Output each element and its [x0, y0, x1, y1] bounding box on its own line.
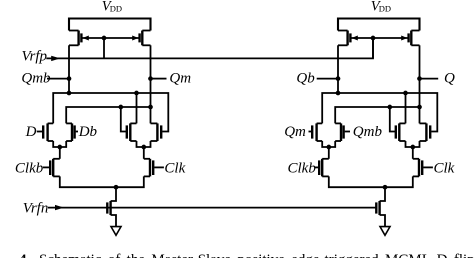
- NMOS input Db drain step (master): [66, 122, 72, 124]
- NMOS clock Clk gate lead (master): [154, 166, 164, 168]
- wire tail NMOS drain rise (master): [111, 187, 116, 201]
- NMOS clock Clkb source step (master): [53, 175, 60, 177]
- ground current-sink arrow (slave): [380, 227, 390, 236]
- NMOS clock Clkb channel (master): [52, 159, 54, 177]
- wire input pair common source (slave): [322, 141, 335, 147]
- node PMOS gate junction (master): [102, 36, 107, 41]
- wire input pair common source (master): [53, 141, 66, 147]
- wire cross-coupled left drain rise (slave): [405, 93, 407, 123]
- wire Vrfp bias drop (master): [103, 38, 105, 58]
- node Qb / line-A junction (slave): [336, 91, 341, 96]
- wire input pair tail drop (slave): [328, 147, 330, 159]
- NMOS clock Clk gate lead (slave): [423, 166, 433, 168]
- node cross-coupled pair tail (master): [141, 145, 146, 150]
- PMOS load left (master) gate bar: [80, 33, 82, 42]
- VDD rail (slave): [338, 19, 420, 31]
- wire Q drain vertical (slave): [419, 45, 421, 123]
- PMOS load right (master) gate bar: [138, 33, 140, 42]
- NMOS cross-coupled right gate bar (slave): [429, 125, 431, 138]
- svg-text:Schematic of the Master-Slave: Schematic of the Master-Slave positive e…: [39, 252, 474, 258]
- wire XC left gate drop (slave): [390, 107, 397, 132]
- NMOS input Qm channel (slave): [315, 123, 317, 141]
- wire XC left gate drop (master): [121, 107, 128, 132]
- NMOS input D gate bar (master): [42, 125, 44, 138]
- NMOS cross-coupled right channel (slave): [425, 123, 427, 141]
- NMOS clock Clk source step (master): [144, 175, 150, 177]
- NMOS clock Clk gate bar (master): [152, 160, 154, 175]
- wire line-B Qm net (master): [66, 107, 150, 123]
- PMOS load right (slave) gate arrow: [401, 36, 407, 41]
- NMOS input Qm source step (slave): [317, 140, 323, 142]
- NMOS input D channel (master): [46, 123, 48, 141]
- wire line-B Q net (slave): [335, 107, 419, 123]
- NMOS clock Clk drain step (slave): [413, 158, 419, 160]
- node Q tap (slave): [417, 76, 422, 81]
- PMOS load left (master) drain step: [69, 44, 79, 46]
- node Qmb / line-A junction (master): [67, 91, 72, 96]
- svg-text:Qm: Qm: [169, 71, 191, 87]
- svg-text:DD: DD: [379, 4, 391, 14]
- node input pair tail (slave): [326, 145, 331, 150]
- wire PMOS gate interconnect (slave): [351, 37, 407, 39]
- NMOS cross-coupled left source step (slave): [399, 140, 405, 142]
- node Qmb tap (master): [67, 76, 72, 81]
- NMOS clock Clkb gate lead (slave): [315, 166, 318, 168]
- node Qm tap (master): [148, 76, 153, 81]
- svg-text:Qm: Qm: [284, 124, 306, 140]
- svg-text:Vrfn: Vrfn: [23, 200, 49, 216]
- svg-text:D: D: [25, 124, 37, 140]
- NMOS clock Clkb gate lead (master): [43, 166, 49, 168]
- NMOS cross-coupled left drain step (slave): [399, 122, 405, 124]
- PMOS load right (slave) gate bar: [407, 33, 409, 42]
- node PMOS gate junction (slave): [371, 36, 376, 41]
- NMOS clock Clk channel (master): [149, 159, 151, 177]
- NMOS input Qm gate bar (slave): [311, 125, 313, 138]
- node line-A / XC drain junction (master): [134, 91, 139, 96]
- node cross-coupled pair tail (slave): [410, 145, 415, 150]
- wire cross-coupled pair common source (master): [137, 141, 151, 147]
- NMOS input Db gate lead (master): [76, 131, 78, 133]
- NMOS cross-coupled right source step (slave): [420, 140, 427, 142]
- arrowhead Vrfp: [51, 56, 60, 61]
- wire line-A Qmb net (master): [53, 93, 168, 132]
- NMOS input D source step (master): [48, 140, 54, 142]
- NMOS cross-coupled left drain step (master): [130, 122, 136, 124]
- wire Qb label lead (slave): [317, 78, 338, 80]
- node line-B / XC gate junction (master): [118, 105, 123, 110]
- wire cross-coupled left drain rise (master): [136, 93, 138, 123]
- NMOS input Qmb channel (slave): [340, 123, 342, 141]
- NMOS clock Clk drain step (master): [144, 158, 150, 160]
- wire line-A Qb net (slave): [322, 93, 437, 132]
- NMOS tail current source channel (master): [109, 201, 111, 215]
- NMOS tail current source source step (master): [111, 215, 116, 227]
- NMOS clock Clkb drain step (master): [53, 158, 60, 160]
- NMOS clock Clkb source step (slave): [322, 175, 329, 177]
- NMOS cross-coupled right gate bar (master): [160, 125, 162, 138]
- svg-text:DD: DD: [110, 4, 122, 14]
- node tail current junction (slave): [383, 185, 388, 190]
- node tail current junction (master): [114, 185, 119, 190]
- NMOS input Qmb source step (slave): [335, 140, 341, 142]
- NMOS clock Clkb gate bar (slave): [318, 160, 320, 175]
- NMOS cross-coupled left gate bar (slave): [395, 125, 397, 138]
- wire PMOS gate interconnect (master): [82, 37, 138, 39]
- ground current-sink arrow (master): [111, 227, 121, 236]
- PMOS load right (master) gate arrow: [132, 36, 138, 41]
- NMOS tail current source channel (slave): [378, 201, 380, 215]
- svg-text:Clk: Clk: [434, 160, 455, 176]
- VDD rail (master): [69, 19, 151, 31]
- PMOS load left (master) gate arrow: [83, 36, 89, 41]
- PMOS load left (slave) gate bar: [349, 33, 351, 42]
- wire Vrfp bias drop (slave): [372, 38, 374, 58]
- NMOS input D gate lead (master): [37, 131, 42, 133]
- NMOS clock Clkb gate bar (master): [49, 160, 51, 175]
- wire Qmb label lead (master): [47, 78, 69, 80]
- wire Vrfp line: [46, 38, 373, 58]
- wire cross-coupled pair common source (slave): [406, 141, 420, 147]
- NMOS clock Clkb drain step (slave): [322, 158, 329, 160]
- PMOS load left (slave) source step: [338, 30, 348, 32]
- NMOS input Db gate bar (master): [73, 125, 75, 138]
- NMOS input Qm drain step (slave): [317, 122, 323, 124]
- NMOS tail current source source step (slave): [380, 215, 385, 227]
- node Qm / line-B junction (master): [148, 105, 153, 110]
- PMOS load right (master) drain step: [142, 44, 150, 46]
- arrowhead Vrfn: [55, 205, 64, 210]
- svg-text:Qmb: Qmb: [21, 71, 51, 87]
- wire Qm drain vertical (master): [150, 45, 152, 123]
- wire clock pair source rail (slave): [329, 176, 413, 187]
- node Q / line-B junction (slave): [417, 105, 422, 110]
- PMOS load left (slave) gate arrow: [352, 36, 358, 41]
- svg-text:4.: 4.: [19, 252, 31, 258]
- NMOS input Qmb drain step (slave): [335, 122, 341, 124]
- NMOS cross-coupled right drain step (slave): [420, 122, 427, 124]
- svg-text:Qb: Qb: [296, 71, 315, 87]
- PMOS load right (master) source step: [142, 30, 150, 32]
- svg-text:Db: Db: [78, 124, 98, 140]
- PMOS load right (slave) drain step: [411, 44, 419, 46]
- NMOS input Db channel (master): [71, 123, 73, 141]
- wire cross-coupled tail drop (master): [143, 147, 145, 159]
- wire Qmb drain vertical (master): [68, 45, 70, 93]
- NMOS cross-coupled left channel (slave): [398, 123, 400, 141]
- NMOS clock Clk channel (slave): [418, 159, 420, 177]
- PMOS load right (master) channel: [141, 31, 143, 46]
- NMOS cross-coupled left source step (master): [130, 140, 136, 142]
- NMOS cross-coupled left channel (master): [129, 123, 131, 141]
- NMOS clock Clkb channel (slave): [321, 159, 323, 177]
- NMOS tail current source gate bar (master): [106, 202, 108, 213]
- svg-text:Clkb: Clkb: [15, 160, 44, 176]
- NMOS input Qmb gate lead (slave): [345, 131, 350, 133]
- NMOS clock Clk gate bar (slave): [421, 160, 423, 175]
- wire clock pair source rail (master): [60, 176, 144, 187]
- NMOS cross-coupled right drain step (master): [151, 122, 158, 124]
- svg-text:Q: Q: [444, 71, 455, 87]
- wire Qb drain vertical (slave): [337, 45, 339, 93]
- wire tail NMOS drain rise (slave): [380, 187, 385, 201]
- NMOS input Db source step (master): [66, 140, 72, 142]
- node line-B / XC gate junction (slave): [387, 105, 392, 110]
- wire Q label lead (slave): [420, 78, 439, 80]
- PMOS load left (master) channel: [77, 31, 79, 46]
- NMOS input Qmb gate bar (slave): [342, 125, 344, 138]
- PMOS load right (slave) source step: [411, 30, 419, 32]
- NMOS input D drain step (master): [48, 122, 54, 124]
- NMOS cross-coupled right channel (master): [156, 123, 158, 141]
- svg-text:Vrfp: Vrfp: [22, 48, 48, 64]
- node Qb tap (slave): [336, 76, 341, 81]
- PMOS load left (slave) drain step: [338, 44, 348, 46]
- NMOS clock Clk source step (slave): [413, 175, 419, 177]
- PMOS load right (slave) channel: [410, 31, 412, 46]
- svg-text:Qmb: Qmb: [353, 124, 383, 140]
- wire Qm label lead (master): [151, 78, 167, 80]
- PMOS load left (slave) channel: [346, 31, 348, 46]
- node input pair tail (master): [57, 145, 62, 150]
- PMOS load left (master) source step: [69, 30, 79, 32]
- NMOS cross-coupled left gate bar (master): [126, 125, 128, 138]
- NMOS tail current source gate bar (slave): [375, 202, 377, 213]
- wire Vrfn line: [48, 207, 376, 209]
- svg-text:Clk: Clk: [164, 160, 185, 176]
- NMOS input Qm gate lead (slave): [309, 131, 312, 133]
- wire input pair tail drop (master): [59, 147, 61, 159]
- wire cross-coupled tail drop (slave): [412, 147, 414, 159]
- svg-text:Clkb: Clkb: [288, 160, 317, 176]
- NMOS cross-coupled right source step (master): [151, 140, 158, 142]
- node line-A / XC drain junction (slave): [403, 91, 408, 96]
